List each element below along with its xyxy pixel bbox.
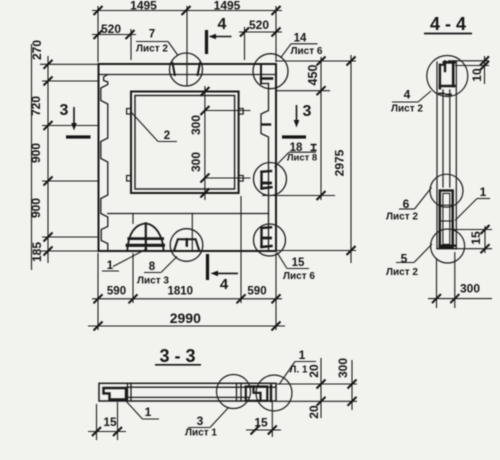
ticks dim 520 right xyxy=(240,28,249,37)
top dim line 520 left xyxy=(92,34,136,36)
section marker 4 top xyxy=(207,16,232,54)
svg-text:15: 15 xyxy=(292,257,305,269)
detail circle 14 xyxy=(253,54,288,89)
ticks dim 520 left xyxy=(94,30,103,39)
svg-text:185: 185 xyxy=(30,242,44,262)
ticks dims 20/20 (3-3) xyxy=(317,380,326,389)
top dim line 1495+1495 xyxy=(92,10,282,12)
svg-text:270: 270 xyxy=(30,40,44,60)
svg-text:4: 4 xyxy=(404,88,411,102)
svg-text:14: 14 xyxy=(294,33,307,45)
15 left dim line xyxy=(88,431,126,433)
lifting dome xyxy=(127,223,163,250)
label 4 Лист 2 leader xyxy=(392,101,418,103)
stub right bottom xyxy=(239,176,244,182)
label 8 Лист 3 leader xyxy=(144,272,161,274)
label 2 leader xyxy=(132,113,159,142)
svg-text:300: 300 xyxy=(460,282,480,296)
section marker 4 bottom xyxy=(208,254,239,293)
joint line in bottom strip xyxy=(191,214,193,252)
300 extension right top xyxy=(205,110,251,112)
svg-text:Лист 2: Лист 2 xyxy=(386,212,418,223)
bottom edge extension right xyxy=(276,250,356,252)
keyway dash right 1 xyxy=(263,123,271,125)
svg-text:2990: 2990 xyxy=(170,310,201,326)
svg-text:2: 2 xyxy=(164,130,170,142)
bottom dim line 2990 xyxy=(88,325,285,327)
section 3-3 slab outline xyxy=(99,383,276,401)
top edge extension right xyxy=(276,60,356,62)
svg-text:Лист 6: Лист 6 xyxy=(291,46,323,57)
detail circle 6 (middle) xyxy=(430,174,463,207)
ticks dim 300 (4-4) xyxy=(432,294,441,303)
svg-text:1495: 1495 xyxy=(214,0,241,13)
right 450 dim line xyxy=(320,57,322,200)
15 right dim line xyxy=(246,429,281,431)
detail circle 18 xyxy=(254,163,287,196)
ticks dim 15 (4-4) xyxy=(481,225,490,234)
svg-text:3: 3 xyxy=(60,102,69,119)
svg-text:3 - 3: 3 - 3 xyxy=(159,346,195,366)
ticks left dim chain 270/720/900/900/185 xyxy=(44,60,53,69)
300 extension right bottom xyxy=(205,177,251,179)
label 14 Лист 6 leader xyxy=(291,43,318,45)
300 dim line inside opening xyxy=(204,86,206,200)
bottom extensions xyxy=(97,253,99,330)
10 dim extensions xyxy=(448,60,489,62)
svg-text:1: 1 xyxy=(299,348,306,362)
detail circle 4 (top) xyxy=(427,56,468,97)
svg-text:3: 3 xyxy=(303,103,312,120)
column bottom cap xyxy=(437,248,456,250)
stub left bottom xyxy=(127,176,131,182)
svg-text:450: 450 xyxy=(306,65,320,86)
top hook profile (detail 4) xyxy=(439,65,441,89)
20 dim line xyxy=(320,358,322,418)
label 7 Лист 2 leader xyxy=(136,41,168,43)
detail circle A (3 Лист 1) xyxy=(217,375,251,409)
svg-text:20: 20 xyxy=(307,364,321,378)
right edge E-profile at circle 18 xyxy=(262,171,272,189)
label 1 left leader xyxy=(126,402,142,420)
wall column outer/inner lines xyxy=(436,62,438,248)
svg-text:3: 3 xyxy=(197,414,204,428)
panel inner right edge line with keyway xyxy=(261,84,269,252)
detail circle 7 xyxy=(170,53,203,86)
15 dim extension (4-4) xyxy=(454,229,492,231)
20/300 extensions right xyxy=(276,383,357,385)
svg-text:520: 520 xyxy=(101,22,121,36)
ticks dim 590/1810/590 xyxy=(94,294,103,303)
svg-text:4: 4 xyxy=(218,16,227,33)
svg-text:8: 8 xyxy=(149,261,156,273)
svg-text:Лист 2: Лист 2 xyxy=(136,44,168,55)
ticks top dim 1495+1495 xyxy=(94,6,103,15)
top dim extensions xyxy=(97,6,99,62)
svg-text:7: 7 xyxy=(149,29,155,41)
left extensions xyxy=(40,63,99,65)
section marker 3 left xyxy=(60,102,91,137)
top-right corner joint detail 14 xyxy=(260,64,262,84)
svg-text:10: 10 xyxy=(470,68,484,82)
svg-text:Лист 3: Лист 3 xyxy=(137,276,169,287)
svg-text:4: 4 xyxy=(220,276,229,293)
label 1 leader xyxy=(113,249,147,267)
svg-text:900: 900 xyxy=(29,198,43,218)
label 1 leader (4-4) xyxy=(477,198,490,200)
svg-text:Лист 8: Лист 8 xyxy=(287,153,317,164)
right 450 extension xyxy=(276,90,330,92)
left channel block (detail 1) xyxy=(104,388,127,399)
svg-text:590: 590 xyxy=(247,286,266,298)
slab inner bottom line xyxy=(127,396,249,398)
detail circle B (right joint) xyxy=(256,375,292,411)
svg-text:1: 1 xyxy=(480,185,487,199)
svg-text:1: 1 xyxy=(107,260,114,272)
right extension at opening bottom level xyxy=(262,195,335,197)
svg-text:15: 15 xyxy=(469,231,483,245)
15 right extension xyxy=(271,401,273,437)
svg-text:Лист 2: Лист 2 xyxy=(386,267,418,278)
label 1 right leader xyxy=(279,362,295,385)
svg-text:590: 590 xyxy=(107,286,126,298)
svg-text:1810: 1810 xyxy=(168,286,194,298)
label 6 Лист 2 leader xyxy=(399,208,415,210)
detail circle 15 xyxy=(254,224,286,256)
top joint trapezoid detail 7 xyxy=(173,63,175,75)
300 extensions (4-4) xyxy=(436,258,438,308)
label 15 Лист 6 leader xyxy=(287,268,309,270)
ticks dim 15 (3-3 left) xyxy=(92,427,101,436)
15 left extensions xyxy=(96,404,98,440)
svg-text:5: 5 xyxy=(401,252,408,266)
svg-text:6: 6 xyxy=(403,197,410,211)
300 dim line (3-3) xyxy=(351,360,353,410)
svg-text:300: 300 xyxy=(189,152,203,172)
svg-text:300: 300 xyxy=(189,115,203,135)
stub right top xyxy=(239,109,244,115)
ticks dim 450 xyxy=(317,57,326,66)
right edge E-profile at circle 15 xyxy=(262,227,272,247)
panel inner left edge line with keyways xyxy=(101,75,108,252)
15 dim line (4-4) xyxy=(484,226,486,253)
label 18 Лист 8 leader xyxy=(289,151,316,153)
ticks dim 10 (4-4) xyxy=(480,56,489,65)
opening inner rect xyxy=(135,96,235,190)
stub left top xyxy=(127,109,131,115)
left frame line xyxy=(31,44,33,270)
ticks dim 2990 xyxy=(94,322,103,331)
svg-text:2975: 2975 xyxy=(333,149,347,176)
svg-text:Л. 1: Л. 1 xyxy=(289,365,308,376)
detail circle 5 (bottom) xyxy=(431,229,465,263)
right 2975 dim line xyxy=(350,55,352,263)
panel outer outline xyxy=(99,64,277,251)
label 5 Лист 2 leader xyxy=(396,262,414,264)
svg-text:900: 900 xyxy=(29,143,43,163)
joint verticals right xyxy=(236,383,238,401)
lower embed rect (details 6/5) xyxy=(440,191,453,248)
joint verticals after block xyxy=(127,383,129,401)
300 dim line (4-4) xyxy=(428,298,492,300)
left dim chain line xyxy=(47,56,49,263)
bottom joint trapezoid detail 8 xyxy=(175,239,199,249)
svg-text:720: 720 xyxy=(29,96,43,116)
detail circle 8 xyxy=(170,229,203,262)
svg-text:15: 15 xyxy=(254,416,268,430)
label 3 Лист 1 leader xyxy=(188,427,210,429)
ticks dim 300 (3-3) xyxy=(348,380,357,389)
10 dim line xyxy=(484,56,486,84)
svg-text:1495: 1495 xyxy=(130,0,157,13)
column joint dashes below detail4 xyxy=(439,93,444,95)
panel inner bottom edge line xyxy=(108,213,269,215)
svg-text:4 - 4: 4 - 4 xyxy=(430,14,466,34)
right joint profile dark blocks xyxy=(246,387,267,401)
panel inner top edge line xyxy=(99,74,277,76)
svg-text:520: 520 xyxy=(249,18,269,32)
slab inner top line xyxy=(127,386,276,388)
bottom dim line 590/1810/590 xyxy=(92,298,282,300)
ticks dim 15 (3-3 right) xyxy=(251,426,260,435)
svg-text:Лист 1: Лист 1 xyxy=(185,428,217,439)
svg-text:15: 15 xyxy=(103,415,117,429)
svg-text:20: 20 xyxy=(307,405,321,419)
svg-text:Лист 6: Лист 6 xyxy=(283,271,315,282)
top dim line 520 right xyxy=(239,31,282,33)
svg-text:1: 1 xyxy=(145,405,152,419)
ticks dim 2975 xyxy=(347,57,356,66)
opening outer rect xyxy=(131,92,239,194)
ticks dim 300/300 opening xyxy=(200,87,209,96)
svg-text:300: 300 xyxy=(336,358,350,378)
section marker 3 right xyxy=(282,103,312,137)
svg-text:Лист 2: Лист 2 xyxy=(391,104,423,115)
